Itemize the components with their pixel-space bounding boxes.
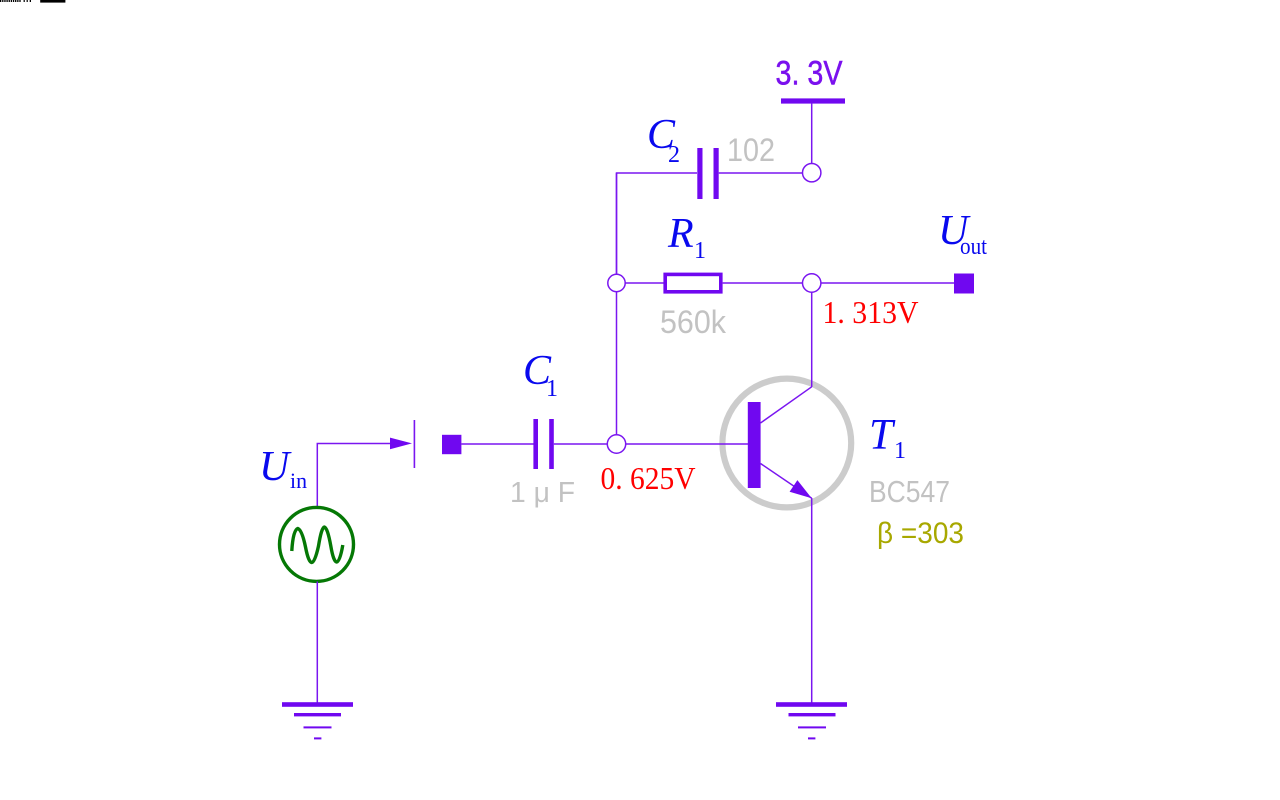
wire: C2 right to node: [719, 172, 812, 174]
wire: left node to R1: [617, 282, 665, 284]
transistor emitter arrowhead: [790, 480, 812, 498]
node: R1 right / collector: [803, 274, 821, 292]
capacitor C1 label: [523, 348, 558, 402]
signal source sine wave: [292, 527, 343, 563]
svg-text:1: 1: [546, 376, 558, 402]
3.3V power rail bar: [781, 98, 845, 103]
wire: square to C1: [461, 443, 534, 445]
wire: emitter to ground: [811, 498, 813, 703]
transistor T1 base bar: [748, 402, 761, 488]
wire: C1 to base node: [554, 443, 617, 445]
svg-text:out: out: [960, 234, 987, 260]
screen-edge artifact top-left: [0, 0, 65, 3]
svg-text:1: 1: [894, 438, 906, 464]
svg-text:102: 102: [727, 132, 775, 168]
svg-text:R: R: [667, 211, 694, 257]
node: C2/power/collector junction: [803, 164, 821, 182]
resistor R1 label: [667, 211, 706, 264]
svg-text:T: T: [869, 412, 896, 459]
input terminal square: [442, 435, 461, 454]
wire: source to ground: [316, 582, 318, 704]
capacitor C2 plates: [697, 148, 718, 199]
svg-text:in: in: [290, 468, 307, 493]
wire: base node to transistor: [617, 443, 749, 445]
wire: R1 right to collector node: [723, 282, 812, 284]
wire: C2 left horizontal: [617, 173, 698, 283]
transistor collector diagonal: [761, 387, 812, 423]
transistor T1 body circle: [722, 379, 851, 508]
svg-text:3. 3V: 3. 3V: [776, 55, 843, 93]
ground (input side): [282, 702, 353, 739]
svg-text:1: 1: [694, 238, 706, 264]
capacitor C1 plates: [533, 419, 553, 469]
capacitor C2 label: [647, 112, 680, 168]
svg-text:0. 625V: 0. 625V: [601, 460, 696, 496]
svg-text:560k: 560k: [660, 304, 727, 340]
node: R1 left / base branch: [608, 274, 625, 291]
Uout label: [938, 208, 987, 260]
wire: collector vertical: [811, 283, 813, 387]
input terminal bar: [414, 420, 416, 468]
wire: source up and right: [317, 444, 390, 508]
svg-text:BC547: BC547: [869, 474, 950, 509]
wire: power rail down to C2/collector node: [811, 103, 813, 172]
ground (emitter side): [776, 702, 847, 739]
svg-text:β =303: β =303: [877, 517, 964, 550]
wire: left branch vertical (C2 corner to base node): [616, 173, 618, 444]
transistor T1 label: [869, 412, 906, 465]
svg-text:U: U: [259, 444, 292, 490]
input arrow: [390, 438, 412, 450]
transistor emitter diagonal: [761, 464, 812, 499]
resistor R1 body: [665, 274, 721, 291]
output terminal square: [954, 274, 974, 294]
svg-text:1 μ F: 1 μ F: [510, 477, 575, 509]
signal source Uin circle: [280, 507, 354, 581]
Uin label: [259, 444, 307, 493]
wire: collector node to output terminal: [812, 282, 956, 284]
svg-text:1. 313V: 1. 313V: [823, 294, 919, 330]
node: base junction: [607, 435, 625, 453]
svg-text:2: 2: [668, 142, 680, 168]
